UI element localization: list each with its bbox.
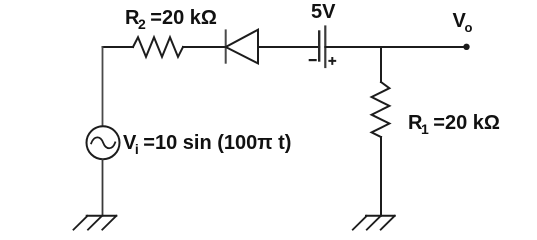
ground (left) hatch 1: [74, 216, 88, 230]
resistor R2: [133, 37, 183, 57]
wire R2 to diode cathode: [183, 46, 226, 48]
wire battery to output terminal: [325, 46, 466, 48]
battery minus sign: [310, 59, 316, 61]
ground (right) hatch 1: [353, 216, 367, 230]
wire source to ground: [102, 160, 104, 216]
ground (left) bar: [87, 215, 117, 217]
wire junction down to R1: [380, 47, 382, 82]
node Vo terminal dot: [463, 44, 469, 50]
battery plus sign: [329, 58, 335, 64]
ground (left) hatch 3: [102, 216, 116, 230]
wire left vertical (node A down to source): [102, 47, 104, 126]
label Vi source value: [123, 133, 291, 153]
wire diode to battery: [258, 46, 319, 48]
label 5V battery value: [311, 2, 335, 22]
AC source sine wave: [91, 137, 115, 148]
label Vo output: [453, 11, 466, 31]
AC source Vi circle: [87, 126, 120, 159]
battery 5V negative plate (short): [318, 32, 320, 61]
battery 5V positive plate (tall): [324, 27, 326, 68]
label Vo subscript o: [465, 21, 473, 34]
wire top-left horizontal (node A to R2): [103, 46, 134, 48]
ground (right) hatch 2: [367, 216, 381, 230]
resistor R1: [372, 82, 390, 137]
diode D1 cathode bar: [225, 30, 227, 62]
ground (right) hatch 3: [381, 216, 395, 230]
label R2 value: [125, 8, 217, 28]
wire R1 to ground: [380, 137, 382, 216]
label R1 value: [408, 113, 500, 133]
diode D1 triangle: [226, 30, 258, 64]
ground (right) bar: [366, 215, 395, 217]
ground (left) hatch 2: [88, 216, 102, 230]
